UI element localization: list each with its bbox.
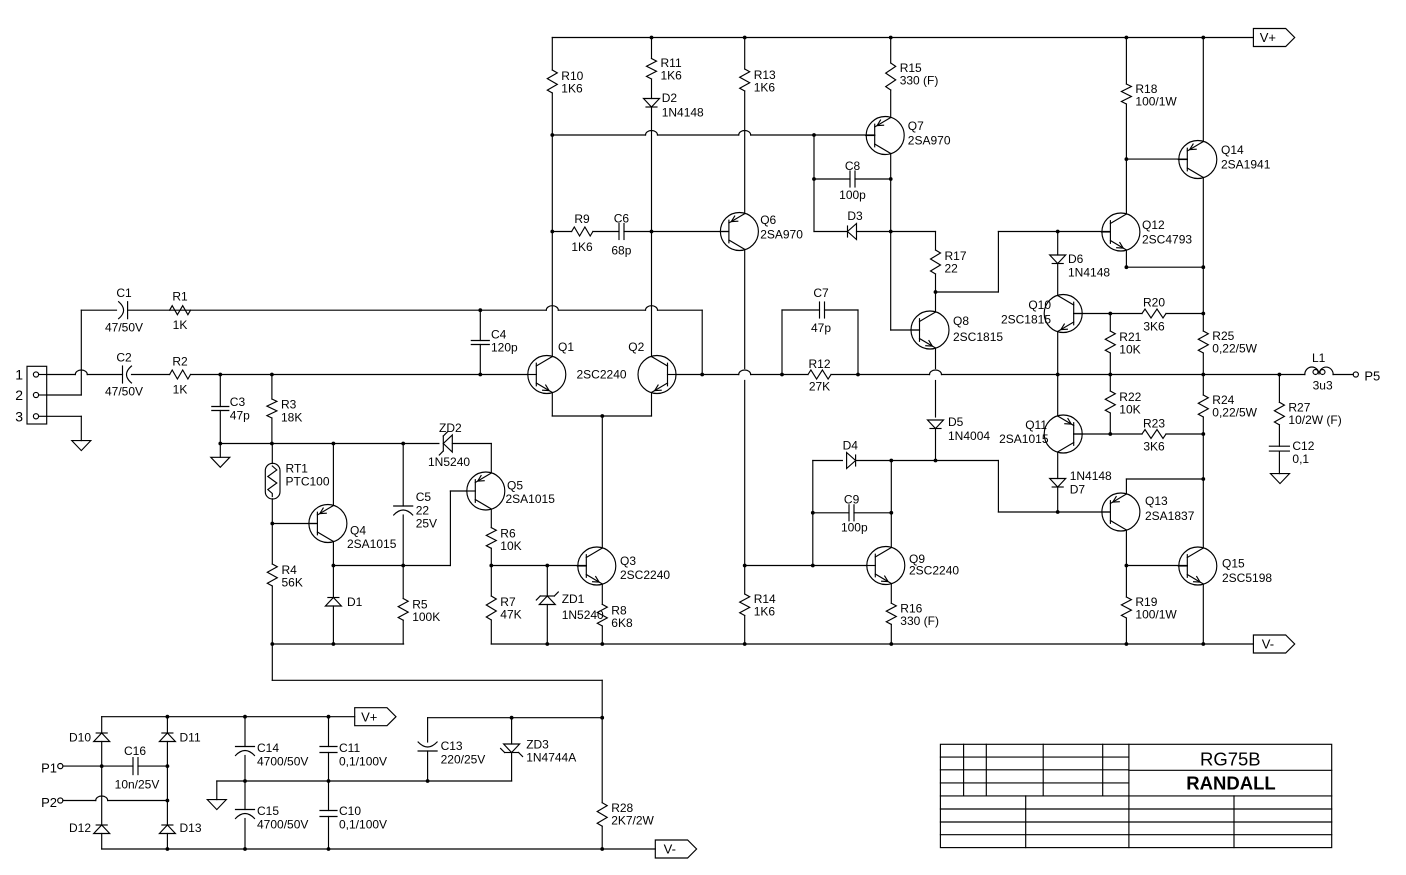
svg-text:D6: D6	[1068, 252, 1084, 266]
diode D13	[159, 821, 201, 835]
svg-text:10/2W (F): 10/2W (F)	[1288, 413, 1341, 427]
svg-text:10K: 10K	[1119, 343, 1140, 357]
wire	[428, 717, 603, 719]
capacitor C2	[105, 351, 143, 399]
wire	[813, 460, 999, 462]
diode D11	[159, 731, 201, 745]
wire	[1333, 374, 1353, 376]
capacitor C4	[471, 328, 518, 355]
capacitor C12	[1269, 439, 1314, 466]
svg-text:120p: 120p	[491, 341, 518, 355]
svg-text:10n/25V: 10n/25V	[115, 778, 160, 792]
wire	[272, 643, 403, 645]
svg-text:RG75B: RG75B	[1200, 749, 1261, 770]
svg-text:2SA1015: 2SA1015	[999, 432, 1049, 446]
capacitor C13	[418, 739, 485, 767]
wire	[1074, 313, 1204, 315]
ground	[72, 441, 91, 451]
wire	[1126, 158, 1187, 160]
svg-text:68p: 68p	[611, 244, 631, 258]
svg-text:47/50V: 47/50V	[105, 385, 143, 399]
power flag V+	[1253, 29, 1294, 47]
svg-text:1K6: 1K6	[754, 605, 776, 619]
wire	[427, 718, 429, 781]
wire	[1126, 250, 1203, 267]
wire	[1109, 314, 1111, 375]
wire	[814, 178, 891, 180]
svg-text:4700/50V: 4700/50V	[257, 755, 308, 769]
svg-text:2SC2240: 2SC2240	[620, 568, 670, 582]
zener ZD1	[536, 592, 604, 622]
wire	[272, 523, 317, 525]
svg-text:56K: 56K	[282, 576, 303, 590]
resistor R4	[267, 563, 303, 590]
wire	[491, 643, 1253, 645]
svg-text:1N4148: 1N4148	[662, 106, 704, 120]
svg-text:C15: C15	[257, 804, 279, 818]
resistor R24	[1198, 393, 1257, 420]
svg-text:ZD1: ZD1	[562, 592, 585, 606]
resistor R1	[170, 290, 191, 333]
svg-text:D5: D5	[948, 415, 964, 429]
svg-text:C11: C11	[339, 741, 360, 755]
svg-text:V-: V-	[664, 842, 676, 857]
svg-text:1N5240: 1N5240	[562, 608, 604, 622]
svg-text:2SC4793: 2SC4793	[1142, 233, 1192, 247]
svg-text:Q2: Q2	[628, 340, 644, 354]
wire	[128, 306, 703, 311]
svg-text:100/1W: 100/1W	[1135, 95, 1177, 109]
svg-text:C14: C14	[257, 741, 279, 755]
svg-text:C13: C13	[441, 739, 463, 753]
wire	[166, 717, 168, 849]
capacitor C6	[611, 212, 631, 258]
diode D10	[69, 731, 110, 745]
transistor Q5	[466, 472, 555, 510]
svg-text:V-: V-	[1262, 637, 1274, 652]
capacitor C8	[839, 159, 866, 202]
svg-text:C1: C1	[116, 286, 132, 300]
svg-text:C4: C4	[491, 328, 507, 342]
wire	[891, 154, 920, 331]
diode D2	[644, 91, 705, 120]
svg-text:100p: 100p	[839, 188, 866, 202]
wire	[552, 393, 651, 417]
svg-text:C9: C9	[844, 493, 860, 507]
wire	[490, 566, 492, 645]
svg-text:R1: R1	[172, 290, 188, 304]
svg-text:R2: R2	[172, 355, 188, 369]
svg-text:0,1/100V: 0,1/100V	[339, 755, 387, 769]
svg-text:0,1/100V: 0,1/100V	[339, 818, 387, 832]
svg-text:C8: C8	[845, 159, 861, 173]
wire	[271, 375, 273, 444]
transistor Q7	[866, 117, 951, 155]
resistor R13	[740, 68, 776, 95]
diode D12	[69, 821, 110, 835]
svg-text:47K: 47K	[500, 608, 521, 622]
wire	[936, 232, 999, 293]
resistor R9	[571, 212, 593, 254]
svg-text:C5: C5	[416, 490, 432, 504]
svg-text:100K: 100K	[412, 610, 440, 624]
resistor R27	[1274, 401, 1341, 428]
zener ZD3	[501, 738, 577, 765]
resistor R11	[647, 56, 683, 83]
wire	[217, 781, 512, 800]
svg-text:P2: P2	[41, 795, 57, 810]
svg-text:3K6: 3K6	[1143, 320, 1165, 334]
wire	[402, 566, 404, 645]
wire	[1125, 38, 1127, 160]
capacitor C11	[320, 741, 387, 769]
svg-text:R3: R3	[281, 398, 297, 412]
svg-text:1K: 1K	[173, 318, 188, 332]
wire	[220, 444, 491, 473]
inductor L1	[1305, 351, 1333, 393]
capacitor C3	[212, 395, 250, 423]
wire	[998, 231, 1110, 233]
svg-text:47p: 47p	[811, 321, 831, 335]
wire	[1126, 530, 1187, 566]
wire	[47, 310, 117, 395]
terminal P2	[41, 795, 63, 810]
wire	[812, 461, 814, 566]
resistor R18	[1121, 82, 1177, 109]
wire	[102, 716, 355, 718]
svg-text:330 (F): 330 (F)	[900, 614, 939, 628]
svg-text:3u3: 3u3	[1313, 379, 1333, 393]
wire	[1074, 433, 1204, 435]
resistor R14	[740, 592, 776, 619]
wire	[1057, 232, 1059, 296]
svg-text:3K6: 3K6	[1143, 440, 1165, 454]
wire	[271, 444, 273, 645]
diode D4	[843, 439, 859, 469]
transistor Q13	[1101, 493, 1194, 531]
wire	[491, 565, 586, 567]
resistor R23	[1142, 417, 1166, 454]
svg-text:D11: D11	[180, 731, 201, 745]
transistor Q11	[999, 415, 1083, 453]
diode D7	[1050, 469, 1112, 497]
transistor Q14	[1178, 141, 1270, 179]
wire	[677, 374, 703, 376]
wire	[333, 491, 466, 566]
svg-text:Q11: Q11	[1025, 418, 1047, 432]
svg-text:100/1W: 100/1W	[1135, 608, 1177, 622]
transistor Q3	[577, 547, 670, 585]
svg-text:D7: D7	[1070, 483, 1086, 497]
svg-text:0,22/5W: 0,22/5W	[1212, 342, 1257, 356]
capacitor C1	[105, 286, 143, 335]
wire	[219, 375, 221, 458]
svg-text:2SC2240: 2SC2240	[909, 564, 959, 578]
resistor R25	[1198, 329, 1257, 356]
svg-text:V+: V+	[361, 709, 377, 724]
resistor R2	[170, 355, 191, 397]
svg-text:R12: R12	[808, 357, 830, 371]
svg-text:2: 2	[15, 387, 23, 403]
wire	[813, 512, 892, 514]
wire	[1057, 452, 1059, 512]
svg-text:10K: 10K	[1119, 403, 1140, 417]
resistor R5	[398, 598, 440, 625]
svg-text:Q8: Q8	[953, 314, 969, 328]
svg-text:2K7/2W: 2K7/2W	[611, 814, 654, 828]
capacitor C16	[115, 744, 160, 792]
resistor R16	[886, 602, 939, 629]
svg-text:R20: R20	[1143, 296, 1165, 310]
wire	[552, 131, 874, 136]
power flag V-	[1253, 635, 1294, 653]
zener ZD2	[428, 421, 470, 469]
wire	[272, 644, 602, 717]
svg-text:22: 22	[416, 504, 430, 518]
wire	[651, 38, 653, 357]
wire	[1202, 479, 1204, 548]
wire	[47, 370, 528, 375]
transistor Q9	[866, 547, 959, 585]
wire	[935, 232, 937, 293]
wire	[546, 566, 548, 645]
resistor R20	[1142, 296, 1166, 334]
wire	[782, 374, 858, 376]
svg-text:Q15: Q15	[1222, 557, 1245, 571]
svg-text:1N4148: 1N4148	[1070, 469, 1112, 483]
transistor Q12	[1101, 213, 1192, 251]
capacitor C15	[236, 804, 309, 832]
svg-text:Q4: Q4	[350, 524, 366, 538]
svg-text:1: 1	[15, 367, 23, 383]
svg-text:1K6: 1K6	[571, 240, 593, 254]
svg-text:C10: C10	[339, 804, 361, 818]
wire	[935, 348, 937, 461]
svg-text:25V: 25V	[416, 517, 437, 531]
capacitor C14	[236, 741, 309, 769]
wire	[744, 566, 746, 645]
svg-text:2SC1815: 2SC1815	[1001, 313, 1051, 327]
svg-text:C3: C3	[230, 395, 246, 409]
svg-text:220/25V: 220/25V	[441, 753, 486, 767]
wire	[1202, 584, 1204, 644]
wire	[551, 38, 553, 357]
svg-text:PTC100: PTC100	[286, 475, 330, 489]
ground	[1271, 474, 1290, 484]
svg-text:4700/50V: 4700/50V	[257, 818, 308, 832]
capacitor C9	[841, 493, 868, 535]
wire	[1057, 332, 1059, 417]
wire	[890, 38, 892, 118]
wire	[63, 796, 167, 801]
resistor R15	[886, 61, 939, 90]
wire	[244, 717, 246, 849]
wire	[47, 416, 82, 440]
wire	[745, 565, 867, 567]
svg-text:0,22/5W: 0,22/5W	[1212, 406, 1257, 420]
svg-text:ZD2: ZD2	[439, 421, 462, 435]
svg-text:Q10: Q10	[1028, 298, 1051, 312]
svg-text:D1: D1	[347, 595, 363, 609]
wire	[601, 718, 603, 849]
title block	[940, 744, 1331, 847]
wire	[102, 848, 656, 850]
resistor R3	[267, 398, 302, 425]
svg-text:D10: D10	[69, 731, 91, 745]
wire	[701, 310, 703, 374]
wire	[890, 461, 892, 548]
wire	[1125, 159, 1127, 214]
svg-text:2SA1015: 2SA1015	[347, 537, 397, 551]
wire	[998, 461, 1110, 513]
svg-text:0,1: 0,1	[1292, 452, 1309, 466]
wire	[511, 718, 513, 781]
transistor Q15	[1178, 547, 1272, 585]
capacitor C5	[394, 490, 437, 531]
svg-text:2SA970: 2SA970	[908, 134, 951, 148]
wire	[1109, 375, 1111, 435]
svg-text:C12: C12	[1292, 439, 1314, 453]
wire	[1126, 479, 1203, 494]
svg-text:2SA1015: 2SA1015	[506, 492, 556, 506]
resistor R6	[486, 527, 521, 554]
wire	[1278, 375, 1280, 474]
svg-text:D2: D2	[662, 91, 678, 105]
terminal P1	[41, 761, 63, 776]
svg-text:R9: R9	[574, 212, 590, 226]
svg-text:1K6: 1K6	[661, 69, 683, 83]
svg-text:Q14: Q14	[1221, 143, 1244, 157]
transistor Q2	[577, 340, 677, 394]
resistor R8	[597, 603, 633, 630]
wire	[935, 292, 937, 312]
svg-text:330 (F): 330 (F)	[900, 74, 939, 88]
svg-text:1K6: 1K6	[754, 81, 776, 95]
svg-text:3: 3	[15, 408, 23, 424]
wire	[101, 717, 103, 849]
svg-text:27K: 27K	[809, 380, 830, 394]
diode D3	[847, 209, 863, 240]
svg-text:Q12: Q12	[1142, 218, 1165, 232]
svg-text:RANDALL: RANDALL	[1186, 773, 1275, 794]
ground	[207, 800, 226, 810]
resistor R7	[486, 595, 521, 622]
wire	[479, 310, 481, 374]
wire	[1202, 178, 1204, 480]
svg-text:2SC5198: 2SC5198	[1222, 571, 1272, 585]
diode D6	[1050, 252, 1111, 280]
svg-text:1N4148: 1N4148	[1068, 266, 1110, 280]
resistor R22	[1105, 390, 1141, 417]
resistor R17	[931, 249, 967, 276]
resistor R10	[547, 69, 583, 96]
resistor R19	[1121, 595, 1177, 622]
power flag V+	[355, 708, 396, 726]
svg-text:C16: C16	[124, 744, 146, 758]
capacitor C10	[320, 804, 387, 832]
transistor Q6	[720, 213, 803, 251]
svg-text:C2: C2	[116, 351, 132, 365]
svg-text:1K6: 1K6	[561, 82, 583, 96]
wire	[1125, 566, 1127, 645]
svg-text:1N5240: 1N5240	[428, 455, 470, 469]
svg-text:2SA970: 2SA970	[760, 228, 803, 242]
svg-text:Q7: Q7	[908, 119, 924, 133]
svg-text:Q1: Q1	[558, 340, 574, 354]
wire	[402, 444, 404, 566]
svg-text:47p: 47p	[230, 409, 250, 423]
terminal P5	[1353, 369, 1380, 384]
svg-text:D4: D4	[843, 439, 859, 453]
resistor R12	[808, 357, 831, 394]
wire	[813, 135, 815, 232]
wire	[601, 416, 603, 548]
svg-text:C7: C7	[813, 286, 829, 300]
svg-text:D12: D12	[69, 821, 91, 835]
thermistor RT1	[265, 462, 330, 500]
wire	[1202, 38, 1204, 142]
svg-text:2SA1837: 2SA1837	[1145, 509, 1195, 523]
wire	[890, 584, 892, 645]
wire	[858, 370, 1305, 375]
wire	[814, 231, 936, 233]
wire	[328, 717, 330, 849]
svg-text:6K8: 6K8	[611, 616, 633, 630]
svg-text:1N4744A: 1N4744A	[526, 751, 576, 765]
transistor Q10	[1001, 295, 1083, 333]
svg-text:2SC2240: 2SC2240	[577, 368, 627, 382]
svg-text:Q6: Q6	[760, 213, 776, 227]
svg-text:D13: D13	[180, 821, 202, 835]
wire	[744, 250, 746, 566]
svg-text:Q13: Q13	[1145, 494, 1168, 508]
diode D5	[928, 415, 991, 443]
resistor R21	[1105, 330, 1141, 357]
svg-text:Q3: Q3	[620, 554, 636, 568]
svg-text:V+: V+	[1260, 30, 1276, 45]
wire	[552, 231, 729, 233]
svg-text:1N4004: 1N4004	[948, 429, 990, 443]
svg-text:D3: D3	[847, 209, 863, 223]
svg-text:10K: 10K	[500, 539, 521, 553]
svg-text:RT1: RT1	[286, 462, 309, 476]
svg-text:22: 22	[945, 262, 959, 276]
wire	[490, 509, 492, 566]
diode D1	[325, 595, 362, 609]
wire	[782, 310, 858, 375]
svg-text:2SC1815: 2SC1815	[953, 330, 1003, 344]
svg-text:ZD3: ZD3	[526, 738, 549, 752]
power flag V-	[655, 840, 696, 858]
svg-text:P5: P5	[1364, 369, 1380, 384]
ground	[211, 457, 230, 467]
capacitor C7	[811, 286, 831, 335]
svg-text:P1: P1	[41, 761, 57, 776]
svg-text:47/50V: 47/50V	[105, 321, 143, 335]
wire	[332, 566, 334, 645]
wire	[601, 584, 603, 644]
svg-text:Q5: Q5	[507, 479, 523, 493]
resistor R28	[597, 801, 654, 828]
wire	[332, 444, 334, 566]
transistor Q8	[911, 311, 1004, 349]
wire	[744, 38, 746, 214]
svg-text:18K: 18K	[281, 411, 302, 425]
svg-text:1K: 1K	[173, 383, 188, 397]
svg-text:R23: R23	[1143, 417, 1165, 431]
svg-text:C6: C6	[614, 212, 630, 226]
wire	[63, 765, 167, 767]
